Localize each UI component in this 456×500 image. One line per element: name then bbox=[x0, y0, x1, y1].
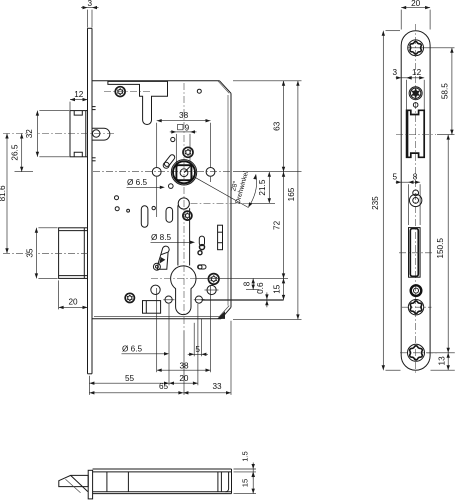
slide bar rectangle bbox=[218, 225, 223, 250]
cylinder fixing channel edges bbox=[177, 205, 179, 265]
latch cutout (front view, thick) bbox=[407, 110, 425, 157]
dimension 20 (deadbolt throw) bbox=[59, 280, 88, 309]
cylinder vertical centerline bbox=[183, 83, 185, 331]
lever pawl with dark wedge bbox=[153, 246, 169, 270]
dimension 150.5 (latch axis to bottom screw) bbox=[427, 135, 455, 353]
svg-text:12: 12 bbox=[412, 68, 422, 77]
bottom view: latch wedge bbox=[59, 475, 88, 492]
dimension 20 (faceplate width) bbox=[401, 0, 430, 30]
latch axis centerline right view bbox=[396, 134, 436, 136]
small hole above deadbolt cutout bbox=[413, 190, 419, 196]
dimension 55 bbox=[89, 304, 197, 385]
dimension square 9 (follower square) bbox=[170, 124, 197, 164]
label 28 deg Drehwinkel bbox=[229, 170, 250, 205]
deadbolt cutout with bolt (front view) bbox=[409, 228, 421, 278]
dimension 35 (deadbolt height) bbox=[26, 228, 58, 279]
svg-text:5: 5 bbox=[393, 172, 398, 181]
screw S5 bottom-left (dark ring torx) bbox=[125, 293, 134, 302]
svg-text:63: 63 bbox=[273, 121, 282, 131]
tiny pill with hole bbox=[198, 265, 206, 269]
screw S1 top-left torx bbox=[115, 87, 125, 97]
svg-text:58.5: 58.5 bbox=[440, 83, 449, 99]
dimension 20 (fixing holes) bbox=[169, 382, 198, 384]
leader diameter 6.5 (lower) with arrow to ext line bbox=[122, 345, 170, 356]
svg-text:13: 13 bbox=[438, 356, 447, 366]
svg-text:8: 8 bbox=[413, 172, 418, 181]
svg-text:165: 165 bbox=[287, 187, 296, 201]
svg-text:20: 20 bbox=[411, 0, 421, 8]
svg-text:81.6: 81.6 bbox=[0, 185, 7, 201]
dimension 65 (backset) bbox=[89, 331, 184, 395]
two small holes left bbox=[115, 196, 119, 200]
dimension 58.5 (top screw to latch axis) bbox=[408, 48, 455, 135]
dimension 63 (top to follower axis) bbox=[233, 81, 302, 172]
svg-text:12: 12 bbox=[74, 90, 84, 99]
mounting hole left (38 apart) bbox=[152, 168, 161, 177]
svg-text:26.5: 26.5 bbox=[10, 144, 19, 160]
deadbolt (thrown, outside faceplate) bbox=[59, 228, 88, 279]
follower centerline (horizontal) bbox=[93, 171, 232, 173]
screw hole above deadbolt cutout bbox=[409, 194, 421, 206]
dimension 8 (cylinder axis to lip) bbox=[252, 278, 254, 289]
leader diameter 8.5 bbox=[151, 233, 196, 244]
faceplate vertical centerline bbox=[415, 24, 417, 374]
faceplate (side view, vertical strip) bbox=[88, 28, 93, 374]
leader diameter 6.5 (upper) bbox=[127, 178, 165, 189]
dimension 5 (fixing hole offset) bbox=[188, 319, 208, 357]
screw S4 right of cylinder bbox=[208, 274, 219, 285]
dimension 38 bottom bbox=[157, 177, 211, 372]
dimension 13 (bottom screw to end) bbox=[431, 353, 455, 370]
small hole bbox=[152, 206, 155, 209]
svg-text:Ø 6.5: Ø 6.5 bbox=[127, 178, 147, 187]
svg-text:38: 38 bbox=[179, 111, 189, 120]
dark wedge at bottom-right chamfer bbox=[217, 311, 225, 319]
dimension 15 (axis to lip bottom) bbox=[283, 278, 285, 300]
tiny filled dot bbox=[127, 209, 130, 212]
svg-text:55: 55 bbox=[125, 374, 135, 383]
small bold circle on slot bbox=[200, 245, 205, 250]
svg-text:3: 3 bbox=[87, 0, 92, 8]
dimension 1.5 (lid thickness) bbox=[234, 451, 257, 478]
28 degree swing arc with arrows bbox=[191, 174, 257, 208]
svg-text:32: 32 bbox=[25, 129, 34, 139]
svg-text:65: 65 bbox=[159, 382, 169, 391]
euro profile cylinder hole bbox=[171, 266, 196, 315]
small hole top-right bbox=[197, 89, 201, 93]
svg-text:15: 15 bbox=[272, 284, 281, 294]
dimension 235 (faceplate length) bbox=[371, 31, 401, 371]
dimension 26.5 (latch axis to follower axis) bbox=[10, 134, 33, 172]
svg-text:3: 3 bbox=[393, 68, 398, 77]
screw S3 below follower bbox=[183, 211, 192, 220]
cylinder horizontal centerline bbox=[151, 277, 196, 279]
hole left of cylinder bbox=[151, 285, 160, 294]
lower fixing hole right (20 apart) bbox=[194, 296, 205, 303]
svg-text:0.6: 0.6 bbox=[256, 282, 265, 294]
faceplate front view outline (rounded ends) bbox=[401, 31, 430, 370]
lock case outline bbox=[92, 81, 231, 320]
small hole left of follower top bbox=[171, 137, 175, 141]
screw T4 bottom bbox=[400, 344, 439, 361]
slot pill B bbox=[166, 207, 173, 222]
dimension 72 (follower to cylinder axis) bbox=[283, 172, 285, 279]
countersunk hole below deadbolt cutout bbox=[411, 285, 422, 296]
dimension 12 (latch head width) bbox=[70, 90, 88, 110]
dimension 81.6 (latch axis to deadbolt axis) bbox=[6, 134, 8, 254]
svg-text:Ø 6.5: Ø 6.5 bbox=[122, 345, 142, 354]
bottom-left small rectangle part bbox=[143, 301, 161, 314]
dimension 32 (latch head height) bbox=[25, 111, 69, 157]
follower square nut with bearing bbox=[171, 160, 196, 185]
svg-text:8: 8 bbox=[242, 281, 251, 286]
dimension 165 (case height) bbox=[233, 81, 302, 320]
svg-text:235: 235 bbox=[371, 196, 380, 210]
small hole lower-left of follower bbox=[169, 184, 174, 189]
bottom view: faceplate bar bbox=[88, 470, 92, 499]
bottom view: case slab bbox=[93, 469, 232, 494]
svg-text:35: 35 bbox=[26, 248, 35, 258]
dimension 15 (case depth) bbox=[234, 472, 257, 494]
svg-text:72: 72 bbox=[273, 220, 282, 230]
svg-text:21.5: 21.5 bbox=[258, 179, 267, 195]
svg-text:1.5: 1.5 bbox=[241, 451, 250, 462]
svg-text:33: 33 bbox=[212, 382, 222, 391]
top slider part (T-shaped) bbox=[108, 81, 168, 124]
reference lip lines bottom right bbox=[246, 289, 259, 291]
svg-text:20: 20 bbox=[68, 298, 78, 307]
screw T2 bbox=[409, 87, 422, 100]
hole below screw S4 bbox=[205, 285, 219, 294]
mounting hole right (38 apart) bbox=[206, 168, 215, 177]
dimension 5 / 8 (deadbolt cutout) bbox=[393, 172, 421, 225]
top screw T1 (torx) bbox=[408, 40, 424, 56]
dimension 21.5 bbox=[191, 172, 276, 204]
latch centerline bbox=[3, 133, 115, 135]
dimension 33 (cylinder axis to case back) bbox=[183, 321, 231, 395]
faceplate latch cutout ticks bbox=[92, 107, 96, 161]
small hole below T2 bbox=[413, 103, 418, 108]
leader from follower to arc bbox=[191, 175, 248, 207]
slot pill A bbox=[141, 206, 148, 227]
screw T3 bbox=[402, 300, 432, 315]
svg-text:15: 15 bbox=[241, 479, 250, 487]
small slot above cylinder right bbox=[199, 236, 204, 246]
hole below follower (8.5 dia) bbox=[178, 198, 189, 209]
svg-text:Ø 8.5: Ø 8.5 bbox=[151, 233, 171, 242]
lower fixing hole left (20 apart) bbox=[163, 296, 174, 303]
dimension 3 / 12 (latch cutout position) bbox=[393, 68, 425, 110]
small angled pill near follower bbox=[163, 154, 176, 169]
latch tail (pill + pivot circle inside case) bbox=[92, 128, 110, 140]
dimension 38 top (mounting holes) bbox=[157, 111, 211, 167]
deadbolt axis centerline right view bbox=[399, 252, 433, 254]
reference line cylinder axis right bbox=[196, 277, 288, 279]
svg-text:150.5: 150.5 bbox=[436, 238, 445, 259]
screw S2 above follower bbox=[183, 147, 193, 157]
latch bolt head (outside faceplate) bbox=[70, 111, 88, 157]
dimension 3 (faceplate thickness) bbox=[81, 0, 99, 28]
centerline through screw S1 bbox=[104, 91, 152, 93]
deadbolt centerline bbox=[3, 252, 90, 254]
small hole right of cylinder top bbox=[198, 251, 202, 255]
bottom view: inner wall lines bbox=[107, 472, 229, 492]
svg-text:9: 9 bbox=[185, 124, 190, 133]
dimension 0.6 bbox=[266, 292, 268, 307]
